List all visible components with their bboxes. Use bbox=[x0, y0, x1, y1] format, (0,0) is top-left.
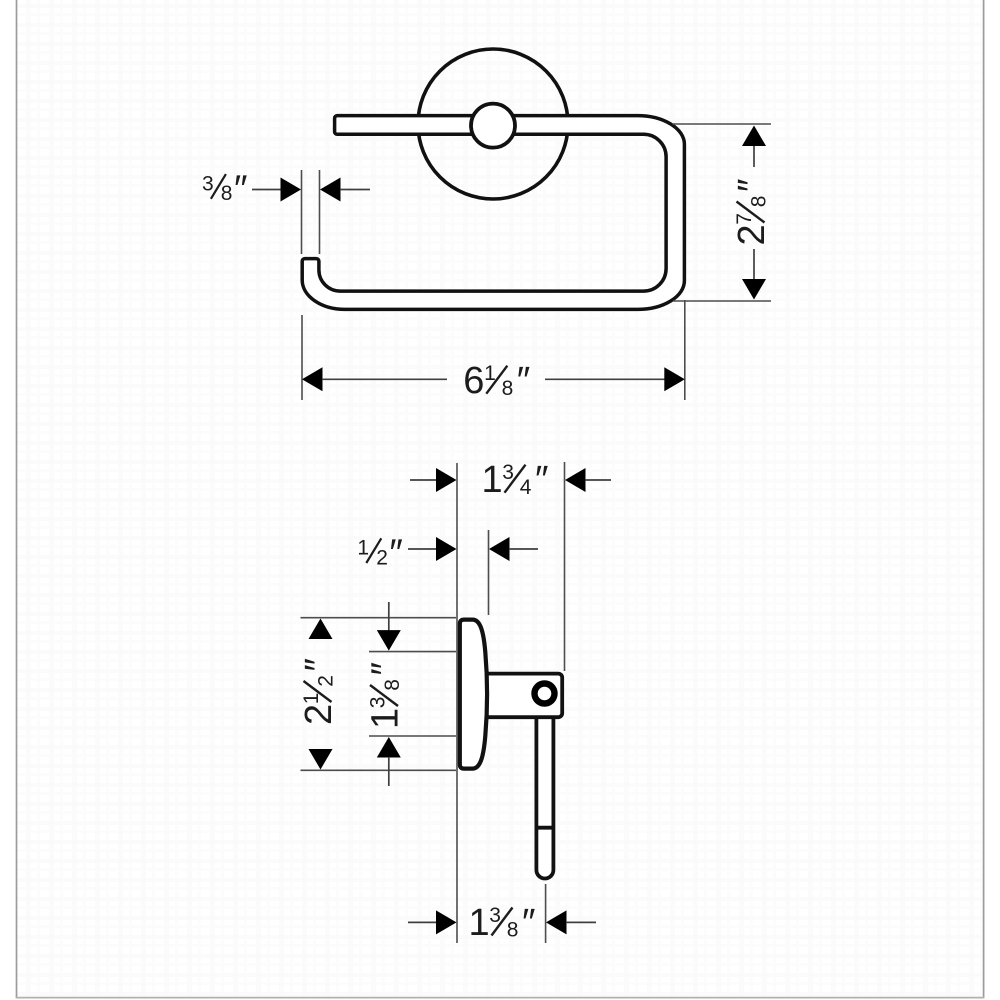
dim 1/2 right arrow bbox=[489, 537, 510, 561]
svg-text:8: 8 bbox=[381, 679, 404, 691]
svg-text:8: 8 bbox=[507, 919, 519, 942]
dim 6 1/8 left tail bbox=[322, 378, 447, 380]
dim 1/2 left tail bbox=[408, 548, 437, 550]
svg-text:″: ″ bbox=[522, 902, 535, 944]
dim 3/8 left tail bbox=[252, 189, 282, 191]
dim 1/2 right tail bbox=[509, 548, 538, 550]
dim 2 7/8 down arrow bbox=[742, 279, 766, 300]
dim 1 3/8 (plate) up arrow bbox=[377, 737, 401, 758]
dim 1 3/8 (bottom) extension line right (rod axis) bbox=[545, 884, 547, 943]
dim 3/8 left arrow bbox=[281, 178, 302, 202]
extension line shared left (x=457) bbox=[456, 463, 458, 943]
support arm (horizontal, behind plate) bbox=[474, 674, 562, 718]
dim label 3/8" bbox=[202, 168, 247, 210]
dim 2 1/2 down arrow bbox=[309, 749, 333, 770]
wall plate (side profile) bbox=[460, 620, 487, 769]
dim 1 3/4 left tail bbox=[410, 479, 437, 481]
dim 1 3/8 (plate) lower tail bbox=[388, 757, 390, 786]
svg-text:″: ″ bbox=[298, 658, 340, 671]
dim 1 3/4 extension line right bbox=[564, 462, 566, 671]
dim 6 1/8 extension line right bbox=[684, 300, 686, 400]
svg-text:″: ″ bbox=[731, 179, 773, 192]
dim label 2 1/2" (rotated) bbox=[298, 658, 340, 725]
roll-holder bent rod outline (open ring) bbox=[302, 116, 684, 310]
svg-text:″: ″ bbox=[517, 360, 530, 402]
dim 2 1/2 extension line bottom bbox=[301, 769, 457, 771]
dim label 1 3/4" bbox=[482, 459, 549, 501]
dim 3/8 right tail bbox=[340, 189, 370, 191]
svg-text:″: ″ bbox=[234, 168, 247, 210]
dim 6 1/8 right arrow bbox=[664, 367, 685, 391]
svg-text:3: 3 bbox=[202, 172, 214, 195]
dim 6 1/8 right tail bbox=[545, 378, 665, 380]
svg-text:2: 2 bbox=[731, 224, 773, 245]
dim 6 1/8 left arrow bbox=[302, 367, 323, 391]
svg-text:1: 1 bbox=[357, 537, 369, 560]
dim 2 1/2 up arrow bbox=[309, 619, 333, 640]
svg-text:8: 8 bbox=[221, 182, 233, 205]
dim 1 3/8 (bottom) left arrow bbox=[436, 910, 457, 934]
dim 2 7/8 extension line top bbox=[673, 123, 772, 125]
dim 2 7/8 upper tail bbox=[753, 146, 755, 167]
svg-text:1: 1 bbox=[469, 902, 490, 944]
dim 1/2 left arrow bbox=[436, 537, 457, 561]
dim 1 3/8 (bottom) left tail bbox=[408, 921, 437, 923]
dim 1 3/8 (plate) down arrow bbox=[377, 630, 401, 651]
svg-text:8: 8 bbox=[502, 377, 514, 400]
svg-text:2: 2 bbox=[315, 675, 338, 687]
dim 3/8 extension line right bbox=[319, 170, 321, 254]
mounting post small circle bbox=[471, 104, 515, 148]
dim 1 3/8 (bottom) right arrow bbox=[546, 910, 567, 934]
dim 1 3/8 (plate) extension line top bbox=[369, 651, 456, 653]
dim label 2 7/8" (rotated) bbox=[731, 179, 773, 246]
svg-text:1: 1 bbox=[365, 708, 407, 729]
dim label 6 1/8" bbox=[463, 360, 530, 402]
frame left border bbox=[16, 0, 18, 998]
svg-text:1: 1 bbox=[482, 459, 503, 501]
dim 1 3/4 right tail bbox=[585, 479, 611, 481]
dim 1 3/8 (plate) extension line bottom bbox=[369, 735, 456, 737]
dim 2 7/8 up arrow bbox=[742, 126, 766, 147]
dim 1/2 extension line right (plate face) bbox=[488, 530, 490, 615]
hanging rod (vertical, behind arm) bbox=[536, 714, 553, 879]
dim label 1 3/8" (bottom) bbox=[469, 902, 536, 944]
frame bottom border bbox=[16, 997, 985, 999]
dim 2 7/8 extension line bottom bbox=[673, 300, 771, 302]
rod joint tick bbox=[536, 826, 553, 830]
dim 1 3/8 (plate) upper tail bbox=[388, 602, 390, 633]
wall flange circle (big circle behind rod) bbox=[418, 49, 568, 199]
dim label 1 3/8" (rotated) bbox=[365, 662, 407, 729]
svg-text:″: ″ bbox=[365, 662, 407, 675]
svg-text:2: 2 bbox=[298, 704, 340, 725]
dim 3/8 right arrow bbox=[320, 178, 341, 202]
frame right border bbox=[983, 0, 985, 998]
dim 1 3/4 left arrow bbox=[436, 468, 457, 492]
dim 2 1/2 extension line top bbox=[301, 617, 457, 619]
dim label 1/2" bbox=[357, 533, 402, 575]
svg-text:8: 8 bbox=[748, 196, 771, 208]
svg-text:″: ″ bbox=[535, 459, 548, 501]
svg-text:4: 4 bbox=[520, 476, 532, 499]
svg-text:″: ″ bbox=[389, 533, 402, 575]
dim 2 7/8 lower tail bbox=[753, 249, 755, 280]
dim 1 3/4 right arrow bbox=[565, 468, 586, 492]
svg-text:6: 6 bbox=[463, 360, 484, 402]
dim 6 1/8 extension line left bbox=[301, 315, 303, 400]
dim 1 3/8 (bottom) right tail bbox=[566, 921, 596, 923]
dim 3/8 extension line left bbox=[301, 170, 303, 254]
svg-text:2: 2 bbox=[376, 546, 388, 569]
screw head ring bbox=[535, 684, 555, 704]
